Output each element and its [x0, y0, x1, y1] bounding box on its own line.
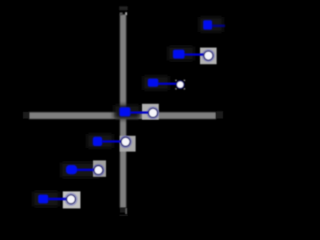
vertical axis (imaginary axis) [120, 15, 126, 208]
node E6 gray box [63, 191, 81, 208]
node E1 label [173, 50, 185, 59]
node E6 leader wire [48, 198, 67, 201]
node E1 marker [204, 51, 213, 60]
faint bar below bottom cap [120, 215, 128, 217]
arrowhead (dark cap) bottom of vertical axis [120, 208, 126, 213]
arrowhead (dark cap) top of vertical axis [119, 6, 127, 10]
node E4 leader wire [102, 140, 123, 142]
node E2 label [148, 79, 159, 87]
arrowhead (dark cap) right of horizontal axis [216, 111, 223, 118]
node E6 label halo [33, 192, 59, 207]
node E5 label [66, 165, 77, 174]
node E1 label halo [168, 47, 194, 61]
node E2 marker [176, 81, 184, 89]
horizontal axis (real axis) [29, 112, 216, 119]
node E1 gray box [200, 48, 217, 65]
node E5 marker [94, 166, 103, 175]
node E4 marker [121, 137, 130, 146]
node E2 label halo [143, 76, 169, 90]
node E6 label [38, 195, 48, 204]
gray tail bottom of vertical axis [125, 208, 127, 214]
node E4 label halo [87, 134, 113, 148]
node E5 leader wire [76, 169, 96, 172]
node E3 marker [149, 108, 158, 117]
node E4 gray box [120, 136, 136, 152]
node E0 label [203, 20, 212, 29]
tick nub left at top of vertical axis [120, 12, 123, 15]
node E6 marker [67, 195, 76, 204]
arrowhead (dark cap) left of horizontal axis [23, 112, 29, 119]
node E5 gray box [93, 160, 106, 176]
node E3 leader wire [130, 111, 149, 113]
node E5 label halo [61, 163, 101, 178]
node E2 leader wire [158, 83, 178, 85]
node E2 corner dots [175, 80, 185, 90]
node E4 label [93, 137, 102, 146]
tick nub bright at top of vertical axis [125, 12, 127, 15]
node E0 leader wire [212, 25, 226, 27]
node E1 leader wire [183, 53, 204, 55]
node E3 label halo [114, 105, 140, 119]
node E3 label [119, 107, 130, 116]
node E0 label halo [199, 17, 223, 32]
node E3 gray box [142, 104, 159, 120]
